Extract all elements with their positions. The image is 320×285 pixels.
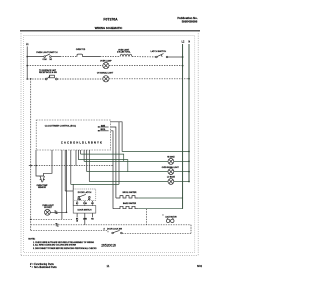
wire row3 dashed from L1 xyxy=(27,78,45,80)
svg-text:SOCKET: SOCKET xyxy=(44,207,53,209)
wire broil igniter to L2 xyxy=(138,197,182,199)
motor door lock xyxy=(166,218,174,223)
wire pin drop 8 xyxy=(83,150,85,161)
svg-text:18: 18 xyxy=(76,221,78,223)
node junction R6 N xyxy=(188,171,190,173)
relay contact A inside box xyxy=(98,124,109,127)
oven temp sensor leads xyxy=(40,176,45,182)
svg-text:DOOR SWITCH: DOOR SWITCH xyxy=(78,209,92,211)
node junction row1 L2 xyxy=(182,56,184,58)
wire row R7 right xyxy=(174,181,189,183)
lamp broil indicator xyxy=(168,169,174,175)
svg-text:LATCH SWITCH: LATCH SWITCH xyxy=(151,50,167,53)
switch door lock xyxy=(112,230,122,233)
svg-text:OVEN TOD: OVEN TOD xyxy=(76,49,86,51)
outer border left xyxy=(20,31,22,255)
svg-text:NOTE:: NOTE: xyxy=(28,239,35,241)
bake igniter element xyxy=(113,206,138,208)
node junction y219 xyxy=(30,219,32,221)
wire row R3 xyxy=(78,160,127,172)
wire row2 dashed left xyxy=(27,65,103,67)
svg-text:HI BAKE: HI BAKE xyxy=(167,156,175,159)
node junction R7 N xyxy=(188,181,190,183)
lamp filament element xyxy=(120,54,132,56)
wire pin drop 9 xyxy=(86,150,88,172)
thermal fuse TOD xyxy=(77,54,83,57)
wire right drop to bottom row xyxy=(190,225,192,234)
wire row R4 bake element xyxy=(84,160,168,162)
switch door plunger switch xyxy=(45,75,57,80)
wire box right exit 1b xyxy=(119,122,122,152)
wire bottom long y230.7 xyxy=(31,231,108,233)
outer border bottom xyxy=(21,254,198,256)
node junction row3 tap xyxy=(30,78,32,80)
wire N rail xyxy=(188,44,190,182)
wire pin drop 10 xyxy=(88,150,90,182)
wire row R1 xyxy=(122,151,189,153)
connector marks on lock row xyxy=(55,223,58,226)
wire row R2 xyxy=(81,154,124,161)
node junction L1 row2 xyxy=(26,65,28,67)
wire row R7 element xyxy=(89,181,168,183)
wire lock drop vertical xyxy=(146,209,148,225)
svg-text:SENSOR: SENSOR xyxy=(38,187,47,189)
svg-text:26520016: 26520016 xyxy=(101,243,116,247)
svg-text:OVEN LAMP: OVEN LAMP xyxy=(100,60,112,63)
wire pin drop 5 xyxy=(75,150,77,166)
svg-text:OVEN LIGHT SWITCH: OVEN LIGHT SWITCH xyxy=(36,52,58,54)
wire bottom right y233 xyxy=(122,232,191,234)
node junction row3 N xyxy=(188,78,190,80)
svg-text:CLOCK/TIMER CONTROL (EOC): CLOCK/TIMER CONTROL (EOC) xyxy=(45,126,77,128)
wire row1 dashed segment xyxy=(100,56,120,58)
wire bake igniter to L2 xyxy=(138,208,182,210)
switch inside latch box xyxy=(78,194,90,198)
wire bottom stub y219 xyxy=(31,218,72,220)
wire door switch pin stubs xyxy=(77,213,92,225)
wire long dashed mid row xyxy=(29,165,113,167)
wire row3 dashed to N xyxy=(109,78,189,80)
wire pin drop 2 xyxy=(64,150,66,191)
switch oven light switch xyxy=(44,54,51,57)
lamp bake indicator xyxy=(168,159,174,165)
switch latch switch xyxy=(156,54,168,58)
wire box right exit 3 xyxy=(111,131,113,209)
node junction L1 row3 xyxy=(26,78,28,80)
wire socket row xyxy=(50,211,66,213)
wire pin drop 4 xyxy=(70,150,72,184)
svg-text:2 BULBS TOTAL: 2 BULBS TOTAL xyxy=(117,51,130,54)
wire row1 left segment xyxy=(27,56,43,58)
wire row R4 right xyxy=(174,160,189,162)
wire row 184 xyxy=(71,183,119,185)
wire box right exit 2 xyxy=(111,127,116,198)
inner border xyxy=(24,36,195,253)
svg-text:*: * xyxy=(163,214,164,217)
svg-text:11: 11 xyxy=(107,264,110,268)
door switch box xyxy=(73,206,96,214)
wire row1 to L2 xyxy=(168,56,183,58)
lamp clean indicator xyxy=(168,179,174,185)
svg-text:COM: COM xyxy=(43,59,48,61)
svg-text:OV SIGNAL LIGHT: OV SIGNAL LIGHT xyxy=(97,71,114,74)
door latch motor box xyxy=(73,189,96,201)
outer border right xyxy=(197,31,199,255)
svg-text:5995436086: 5995436086 xyxy=(182,19,198,23)
wire pin drop 1 xyxy=(61,150,63,219)
broil igniter element xyxy=(116,196,138,198)
svg-text:2. ALL WIRE CODES AND COLORS A: 2. ALL WIRE CODES AND COLORS ARE SHOWN xyxy=(33,244,77,247)
svg-text:3. DISCONNECT POWER BEFORE SER: 3. DISCONNECT POWER BEFORE SERVICING PER… xyxy=(33,247,97,250)
wire latch pin stubs xyxy=(77,201,92,206)
wire box right exit 1 xyxy=(111,122,119,185)
svg-text:DOOR LATCH: DOOR LATCH xyxy=(78,191,92,194)
wire row R6 broil element xyxy=(87,171,168,173)
wire row2 dashed right xyxy=(109,65,183,67)
svg-text:6/02: 6/02 xyxy=(197,264,203,268)
node junction mid row box edge xyxy=(35,165,37,167)
svg-text:* = Non-Illustrated Parts: * = Non-Illustrated Parts xyxy=(30,266,57,269)
wire pin drop 7 xyxy=(80,150,82,154)
svg-text:BAKE IGNITER: BAKE IGNITER xyxy=(123,202,137,205)
outer border top xyxy=(20,30,200,32)
svg-text:LO BAKE: LO BAKE xyxy=(167,176,176,179)
svg-text:WIRING SCHEMATIC: WIRING SCHEMATIC xyxy=(95,26,123,30)
wire row1 dashed to latch switch xyxy=(132,56,156,58)
wire row1 segment xyxy=(83,56,101,58)
svg-text:RECEPTACLE & SW: RECEPTACLE & SW xyxy=(39,71,57,74)
svg-text:F0T376A: F0T376A xyxy=(103,17,118,21)
lamp oven lamp xyxy=(103,63,109,69)
node junction mid row left xyxy=(30,165,32,167)
wire row3 dashed to lamp2 xyxy=(57,78,103,80)
svg-text:DOOR LOCK SW: DOOR LOCK SW xyxy=(107,229,122,231)
lamp socket symbol xyxy=(45,209,51,215)
node junction socket row xyxy=(66,212,68,214)
lamp oven signal light xyxy=(103,76,109,82)
svg-text:N: N xyxy=(188,40,190,43)
relay contact B inside box xyxy=(98,129,109,131)
wire pin drop 3 xyxy=(66,150,68,212)
node junction row2 L2 xyxy=(182,65,184,67)
wire box left feed down xyxy=(36,150,52,176)
svg-text:BROIL: BROIL xyxy=(101,129,106,131)
wire latch box left vertical xyxy=(72,184,74,205)
wire pin drop 6 xyxy=(77,150,79,160)
svg-text:BROIL IGNITER: BROIL IGNITER xyxy=(123,192,137,194)
wire stub y191 to latch box xyxy=(65,190,73,192)
svg-text:1. CHECK WIRE NUTS ARE SECURED: 1. CHECK WIRE NUTS ARE SECURED AT RE-ASS… xyxy=(33,241,95,244)
node junction L1 row1 xyxy=(26,56,28,58)
node junction R4 N xyxy=(188,161,190,163)
node junction R1 N xyxy=(188,151,190,153)
wire row1 mid segment xyxy=(51,56,60,58)
wire row R6 right xyxy=(174,171,189,173)
connector marks on socket row xyxy=(54,211,57,214)
wire L1 rail xyxy=(26,46,28,79)
control board EOC box xyxy=(36,120,111,150)
svg-text:CACBOHLDLRBNYK: CACBOHLDLRBNYK xyxy=(61,141,103,144)
wire L2 rail xyxy=(182,44,184,209)
svg-text:OVEN SIGNAL LIGHT: OVEN SIGNAL LIGHT xyxy=(162,166,179,169)
wire left long vertical xyxy=(30,79,32,231)
wire lock row long dashed xyxy=(31,224,191,226)
